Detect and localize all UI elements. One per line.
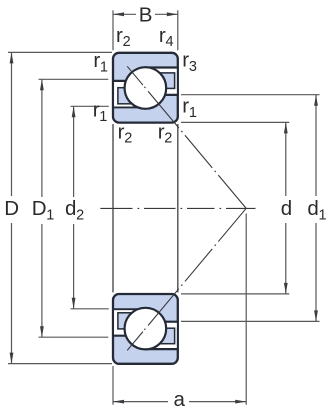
- svg-text:1: 1: [100, 59, 108, 75]
- svg-text:d: d: [281, 197, 292, 220]
- svg-text:1: 1: [189, 105, 197, 121]
- svg-text:D: D: [32, 197, 47, 220]
- svg-text:a: a: [174, 388, 186, 411]
- svg-text:2: 2: [123, 34, 131, 50]
- svg-text:1: 1: [46, 207, 54, 223]
- svg-text:B: B: [139, 4, 153, 27]
- svg-text:D: D: [4, 197, 19, 220]
- svg-text:1: 1: [319, 208, 327, 224]
- svg-text:2: 2: [76, 207, 84, 223]
- svg-text:2: 2: [164, 131, 172, 147]
- svg-text:1: 1: [99, 109, 107, 125]
- svg-text:d: d: [65, 197, 76, 220]
- svg-text:2: 2: [124, 131, 132, 147]
- svg-text:4: 4: [166, 34, 174, 50]
- svg-text:d: d: [307, 197, 318, 220]
- svg-text:3: 3: [189, 59, 197, 75]
